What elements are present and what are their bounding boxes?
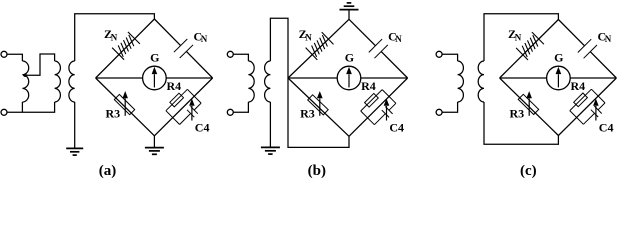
wire: bridge arm top-left (Z_N arm) [288, 19, 349, 78]
resistor R4 (box) [170, 93, 184, 107]
wire: bridge arm top-left (Z_N arm) [96, 19, 155, 78]
R4/C4 parallel loop left end [166, 111, 180, 125]
galvanometer needle arrow [348, 74, 350, 87]
wire: top terminal to primary (b) [233, 54, 248, 61]
wire: bottom rail (a) [7, 102, 55, 112]
impedance Z_N (hatched box) [128, 32, 140, 44]
svg-text:(a): (a) [99, 163, 117, 179]
R3 variable arrow [319, 99, 321, 116]
terminal: source input top (a) [1, 51, 7, 57]
svg-text:C4: C4 [599, 121, 614, 135]
galvanometer G (circle) [143, 66, 167, 90]
resistor R3 (box) [518, 94, 539, 114]
wire: primary bottom to bottom terminal (b) [233, 102, 248, 112]
impedance Z_N (hatched box) [322, 32, 334, 44]
svg-text:R3: R3 [106, 107, 121, 121]
wire: bridge arm bottom-left (R3 arm) [96, 78, 155, 136]
C4 variable arrow [191, 106, 193, 121]
svg-text:N: N [305, 32, 312, 42]
capacitor C4 plates [382, 110, 389, 117]
R4/C4 parallel loop right end [382, 90, 396, 104]
R4/C4 parallel loop upper branch [166, 89, 188, 110]
svg-text:R3: R3 [510, 107, 525, 121]
R4/C4 parallel loop right end [187, 89, 201, 103]
R4/C4 parallel loop left end [361, 111, 375, 125]
wire: bridge arm top-left (Z_N arm) [500, 20, 559, 79]
C4 variable arrow [595, 106, 597, 121]
svg-text:G: G [150, 51, 159, 65]
inductor: transformer secondary (b) [265, 61, 271, 102]
R3 variable arrow [528, 99, 530, 116]
wire: top terminal to variac (a) [7, 54, 22, 61]
ground: transformer secondary (a) [66, 147, 83, 149]
wire: bridge arm bottom-right (R4/C4 arm) [349, 78, 408, 136]
capacitor C_N plates [578, 39, 591, 52]
resistor R4 (box) [365, 93, 379, 107]
R4/C4 parallel loop upper branch [570, 89, 592, 110]
wire: bridge bottom node to ground (a) [153, 136, 155, 148]
inductor: variac winding (a) [22, 61, 28, 102]
wire: left node to galvanometer [96, 77, 143, 79]
terminal: source input bottom (a) [1, 109, 7, 115]
ground: bridge top, inverted (b) [340, 9, 359, 11]
wire: left node to galvanometer [500, 77, 547, 79]
capacitor C_N plates [369, 39, 382, 52]
svg-text:N: N [111, 32, 118, 42]
R4/C4 parallel loop right end [591, 89, 605, 103]
wire: bridge arm top-right (C_N arm) [349, 19, 375, 45]
ground: bridge bottom (a) [145, 147, 164, 149]
R4/C4 parallel loop lower branch [180, 114, 191, 125]
wire: bridge arm top-right (C_N arm) [154, 19, 180, 46]
galvanometer needle arrow [153, 74, 155, 87]
svg-text:G: G [345, 51, 354, 65]
wire: variac tap to transformer primary (a) [23, 54, 55, 75]
capacitor C4 plates [591, 110, 598, 117]
svg-text:R3: R3 [300, 107, 315, 121]
svg-text:(b): (b) [308, 163, 326, 179]
svg-text:R4: R4 [571, 79, 586, 93]
wire: bridge arm bottom-right (R4/C4 arm) [558, 78, 616, 136]
wire: secondary bottom to bridge bottom node (c) [484, 102, 558, 144]
inductor: transformer secondary (c) [478, 61, 484, 102]
svg-text:C4: C4 [195, 121, 210, 135]
svg-text:G: G [554, 51, 563, 65]
R4/C4 parallel loop upper branch [361, 90, 383, 111]
galvanometer needle arrow [557, 74, 559, 87]
svg-text:R4: R4 [361, 79, 376, 93]
svg-text:N: N [395, 34, 402, 44]
wire: top terminal to primary (c) [442, 54, 458, 61]
svg-text:(c): (c) [520, 163, 537, 179]
inductor: transformer secondary (a) [69, 61, 75, 102]
wire: secondary top over to bridge left node and bottom node (b) [270, 18, 349, 147]
svg-text:N: N [515, 32, 522, 42]
impedance Z_N (hatched box) [532, 32, 544, 44]
wire: galvanometer to right node [166, 77, 212, 79]
C4 variable arrow [386, 106, 388, 121]
terminal: source input top (b) [227, 51, 233, 57]
inductor: transformer primary (c) [458, 61, 464, 102]
svg-text:C4: C4 [389, 121, 404, 135]
galvanometer G (circle) [337, 66, 361, 90]
wire: primary bottom to bottom terminal (c) [442, 102, 458, 112]
terminal: source input top (c) [436, 51, 442, 57]
terminal: source input bottom (b) [227, 109, 233, 115]
galvanometer G (circle) [547, 66, 571, 90]
capacitor C_N plates [174, 39, 187, 52]
resistor R4 (box) [574, 93, 588, 107]
svg-text:R4: R4 [167, 79, 182, 93]
R4/C4 parallel loop lower branch [583, 113, 594, 124]
wire: galvanometer to right node [361, 77, 408, 79]
R4/C4 parallel loop left end [570, 111, 584, 125]
ground: transformer secondary (b) [261, 146, 280, 148]
inductor: transformer primary (b) [248, 61, 254, 102]
resistor R3 (box) [114, 94, 134, 114]
wire: bridge arm bottom-right (R4/C4 arm) [154, 78, 212, 136]
wire: bridge top node to ground stub (b) [348, 10, 350, 20]
inductor: transformer primary (a) [55, 61, 61, 102]
capacitor C4 plates [187, 110, 194, 117]
wire: secondary bottom to ground (b) [269, 102, 271, 147]
wire: bridge arm top-right (C_N arm) [558, 20, 584, 46]
svg-text:N: N [201, 34, 208, 44]
wire: bridge arm bottom-left (R3 arm) [500, 78, 559, 136]
wire: secondary top to bridge top node (c) [484, 14, 558, 61]
R3 variable arrow [124, 99, 126, 116]
wire: secondary bottom to ground (a) [74, 102, 76, 148]
resistor R3 (box) [308, 95, 329, 115]
wire: variac bottom to bottom rail (a) [21, 102, 23, 112]
wire: secondary top to bridge top node (a) [75, 14, 155, 61]
terminal: source input bottom (c) [436, 109, 442, 115]
wire: galvanometer to right node [570, 77, 616, 79]
junction dot: variac tap (a) [23, 74, 26, 77]
wire: left node to galvanometer [288, 77, 337, 79]
wire: bridge arm bottom-left (R3 arm) [288, 78, 349, 136]
svg-text:N: N [605, 34, 612, 44]
R4/C4 parallel loop lower branch [374, 114, 385, 125]
